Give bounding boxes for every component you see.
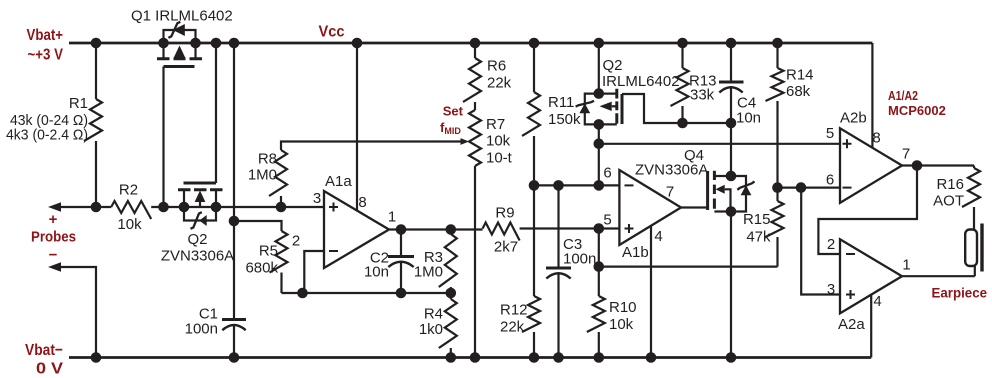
earpiece	[965, 224, 982, 277]
wire A1a feedback bottom line	[282, 292, 451, 294]
wire probe+ line to A1a pin3	[151, 206, 324, 208]
A1a plus input mark	[329, 203, 338, 212]
node Vcc/R11	[529, 38, 540, 49]
svg-text:10-t: 10-t	[486, 150, 513, 167]
wire A2a output	[902, 275, 975, 277]
resistor R3	[439, 234, 457, 287]
node Vcc branch	[229, 38, 240, 49]
node R3/R4	[446, 288, 457, 299]
resistor R2	[111, 201, 151, 219]
wire A1b output to Q4 gate	[681, 206, 708, 208]
wire A2b pin6 line	[778, 187, 841, 189]
wire A1a pin8 to Vcc	[356, 43, 358, 211]
resistor R14	[776, 43, 778, 68]
svg-text:Q2: Q2	[187, 231, 207, 248]
node A1b pin5	[594, 223, 605, 234]
svg-text:A1b: A1b	[622, 244, 649, 261]
svg-text:A2b: A2b	[840, 110, 867, 127]
svg-text:680k: 680k	[245, 260, 278, 277]
resistor R6	[474, 43, 476, 58]
node R8/probe+	[276, 202, 287, 213]
svg-text:R11: R11	[548, 94, 574, 111]
svg-text:R4: R4	[424, 306, 443, 323]
resistor R5	[270, 231, 288, 273]
svg-text:Set: Set	[443, 104, 464, 119]
svg-text:R7: R7	[486, 116, 505, 133]
svg-text:R2: R2	[119, 182, 138, 199]
wire A1b pin4 to ground	[650, 226, 652, 358]
svg-text:10n: 10n	[364, 264, 389, 281]
node R14/R15/A2b pin6	[772, 182, 783, 193]
transistor Q4 ZVN3306A	[708, 171, 755, 212]
svg-text:R16: R16	[936, 176, 964, 193]
wire R15 bottom to pin5 node	[599, 266, 778, 268]
node Vcc/A1a pin8	[352, 38, 363, 49]
svg-text:4: 4	[873, 293, 881, 310]
svg-text:R12: R12	[500, 302, 528, 319]
svg-text:Probes: Probes	[31, 229, 76, 246]
wire Q2b gate to R13/C4 node	[622, 94, 731, 123]
transistor Q1 IRLML6402	[157, 22, 202, 67]
svg-text:fMID: fMID	[440, 120, 461, 136]
svg-text:Earpiece: Earpiece	[932, 285, 988, 301]
node Q4 source/ground	[726, 352, 737, 363]
svg-text:0 V: 0 V	[36, 361, 63, 378]
node Vcc/R1	[91, 38, 102, 49]
node pin2/feedback	[297, 288, 308, 299]
svg-text:33k: 33k	[690, 87, 715, 104]
node Q2 drain/probe+	[211, 202, 222, 213]
node Q4 source	[726, 206, 737, 217]
svg-text:2: 2	[827, 236, 835, 253]
svg-text:A2a: A2a	[838, 316, 865, 333]
wire A2b pin5 line	[599, 143, 840, 145]
op-amp A1a	[324, 191, 389, 268]
A1b plus input mark	[625, 224, 634, 233]
svg-text:4k3 (0-2.4 Ω): 4k3 (0-2.4 Ω)	[6, 127, 88, 144]
wire branch to R5	[234, 221, 282, 231]
node C2/output	[396, 224, 407, 235]
svg-text:~+3 V: ~+3 V	[28, 47, 64, 64]
svg-text:100n: 100n	[185, 321, 218, 338]
node Vcc/Q2 gate	[211, 38, 222, 49]
wire A1b pin5 down segment	[598, 229, 600, 267]
svg-text:+: +	[49, 211, 58, 228]
node A2b pin5 tap	[594, 139, 605, 150]
wire A2b pin8 to Vcc	[871, 43, 873, 148]
wire A2b output	[902, 164, 974, 166]
op-amp A2b	[840, 128, 902, 203]
transistor Q2 ZVN3306A	[178, 43, 223, 229]
node R13/gate line	[677, 118, 688, 129]
wire probe+ line left segment	[58, 206, 111, 208]
wire A1a pin2	[304, 251, 324, 293]
svg-text:10n: 10n	[736, 110, 761, 127]
svg-text:1M0: 1M0	[414, 264, 443, 281]
A1b minus input mark	[625, 184, 634, 186]
node Vcc/R13	[677, 38, 688, 49]
svg-text:22k: 22k	[500, 319, 525, 336]
probe - arrowhead	[48, 262, 61, 272]
op-amp A2a	[840, 239, 902, 313]
wire Vcc top rail	[69, 42, 872, 45]
resistor R13	[681, 43, 683, 68]
node Vcc/R14	[772, 38, 783, 49]
svg-text:R9: R9	[495, 205, 514, 222]
svg-text:Vcc: Vcc	[319, 24, 345, 41]
A2a minus input mark	[846, 253, 855, 255]
resistor R15	[776, 188, 778, 201]
svg-text:R6: R6	[487, 58, 506, 75]
svg-text:100n: 100n	[563, 251, 596, 268]
wire A1a output line	[389, 228, 483, 230]
wire Q2b drain to A1b pin6	[598, 124, 600, 185]
wire A2b feedback to A2a pin2	[818, 166, 917, 255]
node R7/ground	[470, 352, 481, 363]
wire A1b pin6 line	[534, 184, 619, 186]
node A2a pin3 tap	[796, 182, 807, 193]
svg-text:Q2: Q2	[603, 57, 623, 74]
svg-text:1: 1	[388, 209, 396, 226]
svg-text:7: 7	[666, 184, 674, 201]
svg-text:1k0: 1k0	[419, 321, 443, 338]
capacitor C3	[546, 185, 571, 357]
capacitor C2	[388, 230, 414, 294]
node R10/ground	[594, 352, 605, 363]
svg-text:68k: 68k	[786, 83, 811, 100]
node C1/ground	[229, 352, 240, 363]
resistor R9	[483, 223, 520, 241]
svg-text:7: 7	[902, 146, 910, 163]
wire Q4 source to ground	[730, 212, 732, 358]
op-amp A1b	[619, 170, 681, 245]
potentiometer R7	[469, 110, 481, 166]
wire A2a pin4 to ground	[870, 295, 872, 358]
node Vcc/Q1 drain	[190, 38, 201, 49]
wire node Y to Q4 drain	[730, 123, 732, 176]
resistor R4	[439, 299, 457, 348]
node Q2b drain/A1b pin6	[594, 180, 605, 191]
wire ground bottom rail	[69, 356, 871, 359]
svg-text:−: −	[49, 247, 58, 264]
node C3/ground	[553, 352, 564, 363]
svg-text:5: 5	[826, 125, 834, 142]
svg-text:8: 8	[872, 130, 880, 147]
node Q2 source/probe+	[179, 202, 190, 213]
svg-text:MCP6002: MCP6002	[888, 103, 946, 118]
svg-text:R15: R15	[743, 211, 771, 228]
node R11/R12/A1b pin6	[529, 180, 540, 191]
svg-text:A1a: A1a	[325, 173, 352, 190]
svg-text:ZVN3306A: ZVN3306A	[635, 162, 708, 179]
svg-text:R1: R1	[69, 95, 88, 112]
transistor Q2 IRLML6402 (second)	[576, 43, 622, 124]
A2a plus input mark	[846, 290, 855, 299]
A1a minus input mark	[329, 250, 338, 252]
svg-text:R10: R10	[609, 299, 637, 316]
node R12/ground	[529, 352, 540, 363]
node Q2b drain bridge	[594, 119, 605, 130]
svg-text:R8: R8	[258, 151, 277, 168]
svg-text:5: 5	[603, 212, 611, 229]
resistor R1	[95, 43, 97, 99]
resistor R10	[598, 267, 600, 296]
probe + arrowhead	[48, 202, 61, 212]
wire Vcc to C1/R5 branch	[233, 43, 235, 319]
svg-text:1M0: 1M0	[248, 167, 277, 184]
node R10/R15	[594, 261, 605, 272]
wire A2a pin3 to bias node	[801, 188, 840, 295]
node C2/feedback	[396, 288, 407, 299]
node R3/output	[446, 224, 457, 235]
resistor R16	[973, 166, 975, 169]
svg-text:R14: R14	[786, 67, 814, 84]
svg-text:ZVN3306A: ZVN3306A	[161, 248, 234, 265]
node Vcc/R6	[470, 38, 481, 49]
svg-text:3: 3	[313, 190, 321, 207]
wire Q1 gate to probe+ node	[162, 67, 164, 208]
svg-text:Q1 IRLML6402: Q1 IRLML6402	[131, 8, 233, 25]
svg-text:R5: R5	[259, 243, 278, 260]
probe - lead wire	[58, 267, 96, 358]
node A2b output	[912, 160, 923, 171]
svg-text:A1/A2: A1/A2	[888, 88, 918, 103]
svg-text:3: 3	[827, 281, 835, 298]
node Q4 drain	[726, 171, 737, 182]
resistor R8	[269, 150, 287, 196]
node Vcc/Q2b source	[594, 38, 605, 49]
node Vcc/Q1 source	[158, 38, 169, 49]
node A1b pin4/ground	[646, 352, 657, 363]
node C3/pin6 line	[553, 180, 564, 191]
node R1/probe+	[91, 202, 102, 213]
resistor R12	[533, 185, 535, 296]
capacitor C1	[222, 320, 246, 358]
capacitor C4	[719, 43, 744, 123]
svg-text:6: 6	[603, 165, 611, 182]
svg-text:Vbat+: Vbat+	[27, 27, 64, 44]
node C4/Q4 drain line	[726, 118, 737, 129]
svg-text:1: 1	[902, 257, 910, 274]
svg-text:IRLML6402: IRLML6402	[602, 73, 680, 90]
node Q2b source bridge	[594, 88, 605, 99]
svg-text:AOT: AOT	[933, 193, 964, 210]
svg-text:4: 4	[654, 228, 662, 245]
svg-text:2: 2	[292, 233, 300, 250]
node probe-/ground	[91, 352, 102, 363]
R7 wiper arrowhead	[461, 138, 470, 145]
svg-text:10k: 10k	[609, 316, 634, 333]
node R4/ground	[446, 352, 457, 363]
node Vcc/C4	[726, 38, 737, 49]
svg-text:6: 6	[826, 172, 834, 189]
resistor R11	[533, 43, 535, 92]
svg-text:8: 8	[358, 194, 366, 211]
svg-text:47k: 47k	[746, 229, 771, 246]
A2b plus input mark	[843, 139, 852, 148]
svg-text:Vbat−: Vbat−	[25, 342, 63, 359]
svg-text:2k7: 2k7	[494, 239, 518, 256]
svg-text:10k: 10k	[117, 216, 142, 233]
node R5 branch tap	[229, 216, 240, 227]
svg-text:150k: 150k	[548, 111, 581, 128]
svg-text:22k: 22k	[487, 75, 512, 92]
node Q1 gate/probe+	[158, 202, 169, 213]
A2b minus input mark	[843, 187, 852, 189]
wire R9 to A1b pin5	[520, 227, 620, 229]
svg-text:10k: 10k	[486, 133, 511, 150]
wire R8 to R7 wiper	[281, 142, 461, 151]
